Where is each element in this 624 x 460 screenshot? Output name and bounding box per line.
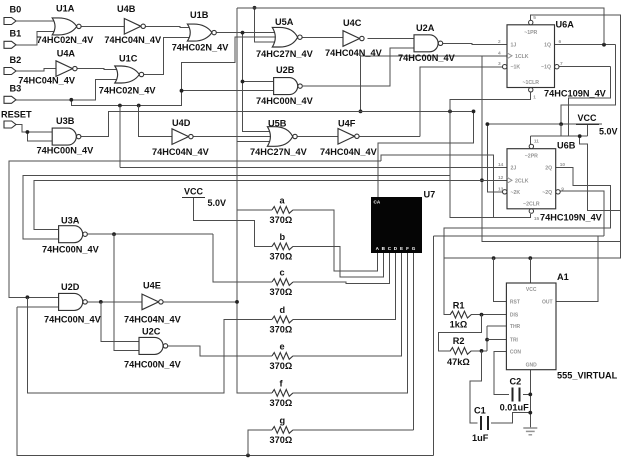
svg-text:U1A: U1A bbox=[56, 4, 75, 14]
svg-text:2CLK: 2CLK bbox=[515, 178, 529, 184]
svg-text:2: 2 bbox=[498, 39, 501, 45]
svg-text:1: 1 bbox=[533, 95, 536, 101]
svg-text:R1: R1 bbox=[453, 300, 465, 310]
svg-text:THR: THR bbox=[510, 324, 521, 330]
svg-text:U3A: U3A bbox=[61, 215, 80, 225]
svg-text:OUT: OUT bbox=[542, 300, 553, 306]
svg-text:74HC27N_4V: 74HC27N_4V bbox=[250, 147, 308, 157]
svg-text:CON: CON bbox=[510, 350, 522, 356]
svg-text:U1C: U1C bbox=[119, 54, 138, 64]
svg-text:E: E bbox=[400, 246, 403, 251]
svg-text:74HC02N_4V: 74HC02N_4V bbox=[172, 43, 230, 53]
svg-text:B2: B2 bbox=[10, 55, 22, 65]
svg-text:CA: CA bbox=[374, 200, 381, 205]
svg-text:2J: 2J bbox=[511, 166, 517, 172]
svg-text:74HC04N_4V: 74HC04N_4V bbox=[325, 48, 383, 58]
svg-text:~1Q: ~1Q bbox=[541, 65, 551, 71]
svg-text:11: 11 bbox=[534, 139, 539, 145]
svg-text:U4A: U4A bbox=[57, 49, 76, 59]
svg-text:U2A: U2A bbox=[416, 23, 435, 33]
svg-text:1uF: 1uF bbox=[472, 433, 489, 443]
svg-text:74HC04N_4V: 74HC04N_4V bbox=[124, 315, 182, 325]
svg-text:~2Q: ~2Q bbox=[542, 190, 552, 196]
svg-text:74HC04N_4V: 74HC04N_4V bbox=[104, 35, 162, 45]
svg-text:47kΩ: 47kΩ bbox=[447, 357, 470, 367]
svg-text:VCC: VCC bbox=[578, 113, 598, 123]
svg-text:14: 14 bbox=[498, 162, 504, 168]
svg-text:2Q: 2Q bbox=[545, 166, 552, 172]
svg-text:U1B: U1B bbox=[190, 10, 209, 20]
svg-text:5: 5 bbox=[533, 15, 536, 21]
svg-text:U2C: U2C bbox=[142, 327, 161, 337]
svg-text:b: b bbox=[280, 232, 286, 242]
svg-text:13: 13 bbox=[498, 186, 504, 192]
svg-text:A1: A1 bbox=[557, 272, 569, 282]
svg-text:RST: RST bbox=[510, 300, 520, 306]
svg-text:C2: C2 bbox=[510, 376, 522, 386]
svg-text:C1: C1 bbox=[474, 405, 486, 415]
svg-text:74HC109N_4V: 74HC109N_4V bbox=[540, 212, 603, 222]
svg-text:370Ω: 370Ω bbox=[270, 215, 293, 225]
svg-text:74HC27N_4V: 74HC27N_4V bbox=[256, 49, 314, 59]
svg-text:U2D: U2D bbox=[61, 282, 80, 292]
svg-text:~2K: ~2K bbox=[511, 190, 521, 196]
svg-text:U6B: U6B bbox=[557, 141, 576, 151]
svg-text:1kΩ: 1kΩ bbox=[450, 320, 468, 330]
svg-text:74HC109N_4V: 74HC109N_4V bbox=[544, 88, 607, 98]
svg-text:74HC00N_4V: 74HC00N_4V bbox=[42, 245, 100, 255]
svg-text:74HC04N_4V: 74HC04N_4V bbox=[152, 147, 210, 157]
svg-text:3: 3 bbox=[498, 61, 501, 67]
svg-text:VCC: VCC bbox=[184, 186, 204, 196]
svg-text:370Ω: 370Ω bbox=[270, 398, 293, 408]
svg-text:0.01uF: 0.01uF bbox=[500, 403, 529, 413]
svg-text:555_VIRTUAL: 555_VIRTUAL bbox=[557, 371, 618, 381]
svg-text:F: F bbox=[406, 246, 409, 251]
svg-text:U4B: U4B bbox=[117, 4, 136, 14]
svg-text:5.0V: 5.0V bbox=[599, 126, 618, 136]
svg-text:74HC00N_4V: 74HC00N_4V bbox=[44, 315, 102, 325]
svg-text:RESET: RESET bbox=[1, 109, 32, 119]
svg-text:R2: R2 bbox=[453, 336, 465, 346]
svg-text:g: g bbox=[280, 415, 286, 425]
svg-text:B1: B1 bbox=[10, 28, 22, 38]
svg-text:G: G bbox=[412, 246, 416, 251]
svg-text:6: 6 bbox=[559, 39, 562, 45]
svg-text:GND: GND bbox=[526, 363, 538, 369]
svg-text:TRI: TRI bbox=[510, 338, 519, 344]
svg-text:~2CLR: ~2CLR bbox=[523, 201, 540, 207]
svg-text:e: e bbox=[280, 341, 285, 351]
svg-text:DIS: DIS bbox=[510, 313, 519, 319]
svg-text:a: a bbox=[280, 195, 286, 205]
svg-text:74HC04N_4V: 74HC04N_4V bbox=[18, 75, 76, 85]
svg-text:1Q: 1Q bbox=[544, 43, 551, 49]
svg-text:5.0V: 5.0V bbox=[208, 198, 227, 208]
svg-text:U5A: U5A bbox=[275, 17, 294, 27]
svg-text:10: 10 bbox=[560, 162, 566, 168]
svg-text:370Ω: 370Ω bbox=[270, 361, 293, 371]
svg-text:74HC02N_4V: 74HC02N_4V bbox=[37, 35, 95, 45]
svg-text:U6A: U6A bbox=[556, 19, 575, 29]
svg-text:370Ω: 370Ω bbox=[270, 435, 293, 445]
svg-text:U4C: U4C bbox=[343, 18, 362, 28]
svg-text:~1PR: ~1PR bbox=[524, 30, 537, 36]
svg-text:12: 12 bbox=[498, 175, 504, 181]
svg-text:c: c bbox=[280, 268, 285, 278]
svg-text:370Ω: 370Ω bbox=[270, 287, 293, 297]
svg-text:74HC00N_4V: 74HC00N_4V bbox=[256, 96, 314, 106]
svg-text:d: d bbox=[280, 305, 286, 315]
svg-text:U3B: U3B bbox=[56, 116, 75, 126]
svg-text:~2PR: ~2PR bbox=[525, 154, 538, 160]
svg-text:9: 9 bbox=[561, 186, 564, 192]
svg-text:7: 7 bbox=[560, 61, 563, 67]
svg-text:B0: B0 bbox=[10, 5, 22, 15]
svg-text:4: 4 bbox=[498, 50, 501, 56]
svg-text:1CLK: 1CLK bbox=[515, 54, 529, 60]
svg-text:U4F: U4F bbox=[338, 118, 356, 128]
svg-text:15: 15 bbox=[534, 216, 540, 222]
svg-text:~1K: ~1K bbox=[511, 65, 521, 71]
svg-text:370Ω: 370Ω bbox=[270, 252, 293, 262]
svg-text:74HC00N_4V: 74HC00N_4V bbox=[398, 53, 456, 63]
svg-text:U5B: U5B bbox=[268, 118, 287, 128]
svg-text:74HC02N_4V: 74HC02N_4V bbox=[99, 86, 157, 96]
svg-text:~1CLR: ~1CLR bbox=[522, 80, 539, 86]
svg-text:74HC00N_4V: 74HC00N_4V bbox=[124, 360, 182, 370]
svg-text:74HC00N_4V: 74HC00N_4V bbox=[37, 146, 95, 156]
svg-text:U7: U7 bbox=[424, 190, 436, 200]
svg-text:U4E: U4E bbox=[143, 281, 161, 291]
svg-text:74HC04N_4V: 74HC04N_4V bbox=[320, 147, 378, 157]
svg-text:U2B: U2B bbox=[276, 65, 295, 75]
svg-text:U4D: U4D bbox=[172, 118, 191, 128]
svg-text:VCC: VCC bbox=[526, 287, 537, 293]
svg-text:370Ω: 370Ω bbox=[270, 325, 293, 335]
svg-text:1J: 1J bbox=[511, 43, 517, 49]
